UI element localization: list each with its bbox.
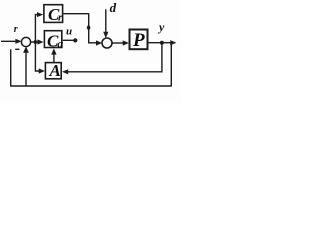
wire bottom feedback — [11, 85, 172, 87]
wire S1 bottom riser — [25, 51, 27, 87]
svg-text:A: A — [49, 61, 61, 80]
node dot on drop line — [87, 26, 90, 30]
arrowhead into A right side — [62, 69, 68, 74]
wire P output — [148, 42, 172, 44]
summing junction S2 — [102, 38, 112, 48]
arrowhead into Cr — [37, 12, 43, 17]
wire left riser — [10, 49, 12, 86]
arrowhead into A left side — [39, 68, 45, 73]
wire r input — [1, 40, 19, 42]
node y dot — [160, 41, 164, 45]
arrowhead A up into Ca — [51, 48, 56, 54]
svg-text:r: r — [58, 12, 63, 24]
svg-text:a: a — [57, 37, 63, 51]
wire riser N1 up to Cr — [35, 15, 39, 42]
wire error tap down from N1 right to A — [35, 42, 40, 71]
block Ca box — [44, 31, 61, 48]
wire u output of Ca — [63, 39, 74, 41]
arrowhead r into S1 — [15, 39, 21, 44]
wire A up to Ca — [53, 53, 55, 63]
block A box — [45, 63, 61, 79]
minus sign at S1 — [15, 49, 19, 50]
node N1 dot — [34, 40, 38, 44]
node u dot — [73, 38, 77, 42]
wire S2 to P — [112, 42, 126, 44]
svg-text:P: P — [132, 30, 145, 51]
block Cr box — [44, 5, 63, 23]
svg-text:d: d — [110, 0, 117, 15]
wire S1 to node N1 to Ca — [31, 41, 40, 43]
wire d line down — [105, 9, 107, 33]
arrowhead into S2 from left — [96, 40, 102, 45]
summing junction S1 — [21, 37, 30, 46]
svg-text:r: r — [14, 24, 18, 35]
arrowhead feedback up into S1 — [23, 46, 29, 52]
arrowhead into Ca — [37, 39, 43, 44]
wire Cr output — [64, 13, 89, 15]
arrowhead y output — [170, 40, 176, 45]
wire drop from Cr corner down — [88, 13, 90, 43]
arrowhead into P — [123, 40, 129, 45]
svg-text:u: u — [66, 26, 72, 38]
wire tap1 down from y-node left to A — [66, 43, 162, 72]
block P box — [130, 30, 148, 50]
arrowhead d into S2 — [103, 32, 108, 38]
wire into S2 — [88, 42, 99, 44]
svg-text:y: y — [157, 20, 165, 34]
wire right tap2 down — [170, 43, 172, 87]
